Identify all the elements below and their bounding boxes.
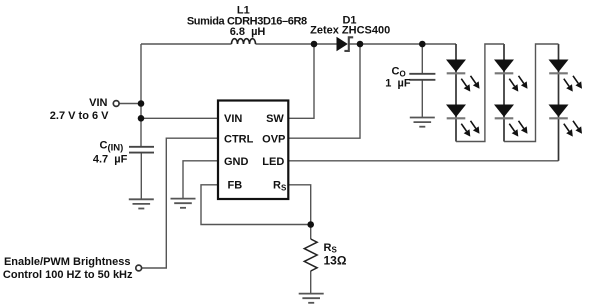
wire CTRL pin to enable terminal bbox=[142, 138, 218, 268]
ground under CO bbox=[410, 118, 435, 127]
svg-text:VIN: VIN bbox=[89, 97, 107, 109]
wire LED column 1 bbox=[455, 44, 457, 142]
wire GND pin to ground bbox=[183, 161, 218, 199]
wire SW pin to top rail bbox=[288, 44, 314, 118]
wire VIN node to IC VIN pin bbox=[141, 117, 218, 119]
node OVP output bbox=[357, 41, 364, 48]
LED string2 top bbox=[494, 60, 528, 92]
wire VIN terminal to node bbox=[119, 103, 141, 105]
svg-text:Control 100 HZ to 50 kHz: Control 100 HZ to 50 kHz bbox=[3, 269, 133, 281]
ground under RS bbox=[299, 294, 324, 303]
terminal Enable/PWM bbox=[136, 265, 142, 271]
svg-text:Enable/PWM Brightness: Enable/PWM Brightness bbox=[4, 256, 131, 268]
node VIN pin bbox=[138, 115, 145, 122]
diode D1 Schottky bbox=[337, 37, 354, 51]
LED string1 top bbox=[446, 60, 480, 92]
svg-text:C(IN): C(IN) bbox=[100, 140, 124, 154]
wire L1 to D1 anode bbox=[256, 43, 337, 45]
svg-text:CTRL: CTRL bbox=[224, 133, 254, 145]
svg-text:OVP: OVP bbox=[262, 133, 285, 145]
node SW bbox=[311, 41, 318, 48]
wire OVP pin to output node bbox=[288, 44, 360, 138]
op-amp U1 TPS61042 boost converter IC bbox=[218, 101, 288, 200]
wire output node to CO bbox=[421, 44, 423, 74]
wire RS pin down to sense node bbox=[288, 185, 310, 225]
wire RS resistor to ground bbox=[310, 271, 312, 294]
wire CIN to ground bbox=[140, 153, 142, 200]
svg-text:Zetex ZHCS400: Zetex ZHCS400 bbox=[310, 24, 390, 36]
wire string2 to string3 link bbox=[504, 44, 559, 142]
svg-text:1 µF: 1 µF bbox=[385, 78, 411, 90]
wire string1 to string2 link bbox=[456, 44, 504, 142]
wire sense node to RS resistor bbox=[310, 226, 312, 239]
inductor L1 bbox=[232, 39, 256, 44]
svg-text:4.7 µF: 4.7 µF bbox=[93, 153, 128, 165]
capacitor CO bbox=[409, 74, 435, 80]
node CO bbox=[419, 41, 426, 48]
terminal VIN bbox=[113, 101, 119, 107]
wire LED column 3 bbox=[558, 44, 560, 161]
wire top rail left of L1 bbox=[141, 43, 232, 45]
wire LED pin to string 3 bottom bbox=[288, 160, 558, 162]
wire CO to ground bbox=[421, 80, 423, 118]
ground under CIN bbox=[129, 199, 154, 208]
svg-text:13Ω: 13Ω bbox=[324, 254, 347, 268]
wire D1 cathode to LED string 1 top bbox=[349, 43, 456, 45]
svg-text:FB: FB bbox=[228, 180, 243, 192]
svg-text:2.7 V to 6 V: 2.7 V to 6 V bbox=[50, 110, 109, 122]
ground at IC GND bbox=[171, 199, 196, 208]
wire LED column 2 bbox=[503, 44, 505, 142]
node VIN input bbox=[138, 100, 145, 107]
svg-text:GND: GND bbox=[224, 156, 249, 168]
LED string1 bottom bbox=[446, 105, 480, 137]
capacitor CIN bbox=[129, 147, 154, 153]
LED string2 bottom bbox=[494, 105, 528, 137]
wire left vertical rail bbox=[140, 44, 142, 146]
svg-text:SW: SW bbox=[266, 113, 284, 125]
svg-text:LED: LED bbox=[262, 156, 284, 168]
wire FB pin to sense node bbox=[201, 185, 311, 225]
resistor RS bbox=[304, 239, 317, 271]
node FB sense bbox=[307, 221, 314, 228]
LED string3 top bbox=[549, 60, 583, 92]
svg-text:VIN: VIN bbox=[224, 113, 242, 125]
svg-text:6.8 µH: 6.8 µH bbox=[230, 26, 266, 38]
LED string3 bottom bbox=[549, 105, 583, 137]
